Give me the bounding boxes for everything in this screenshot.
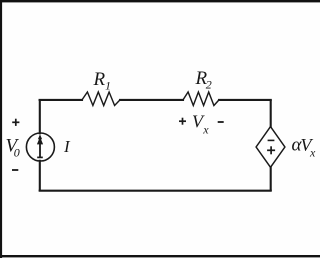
wire top-left segment	[40, 99, 82, 101]
plus sign of Vx	[179, 118, 186, 125]
minus sign of Vx	[218, 121, 224, 123]
svg-text:I: I	[63, 137, 71, 156]
svg-text:x: x	[202, 123, 209, 137]
border frame (decorative)	[0, 0, 320, 2]
svg-text:R: R	[93, 69, 106, 90]
plus sign inside diamond	[267, 146, 275, 154]
resistor R1	[82, 92, 120, 106]
wire right vertical above dependent source	[270, 101, 272, 127]
wire right vertical below dependent source	[270, 167, 272, 190]
wire between R1 and R2	[120, 99, 183, 101]
current source arrowhead	[38, 134, 42, 139]
svg-text:x: x	[309, 146, 316, 160]
plus sign of V0	[12, 119, 19, 126]
current source arrow shaft	[39, 139, 41, 158]
wire left vertical above source	[39, 101, 41, 134]
minus sign inside diamond	[268, 139, 275, 141]
minus sign of V0	[12, 169, 18, 171]
dependent source diamond	[256, 127, 285, 168]
current source arrow foot serif	[37, 156, 43, 158]
wire top-right segment	[219, 99, 271, 101]
svg-text:0: 0	[14, 146, 20, 160]
current source I (circle)	[26, 133, 54, 161]
wire left vertical below source	[39, 161, 41, 190]
resistor R2	[183, 92, 219, 106]
svg-text:1: 1	[105, 79, 111, 93]
wire bottom	[40, 190, 271, 192]
svg-text:2: 2	[206, 78, 212, 92]
